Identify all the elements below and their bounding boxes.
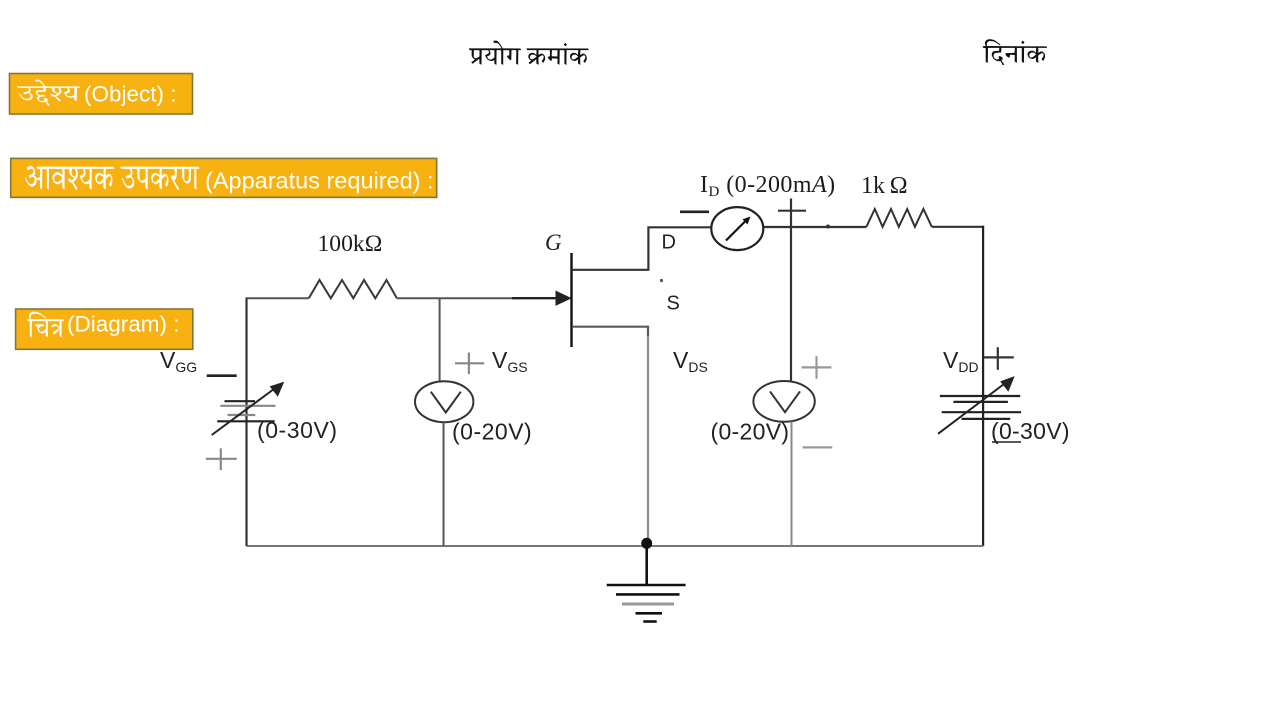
svg-text:VGG: VGG xyxy=(160,347,197,375)
wire: left vertical V_GG branch xyxy=(245,298,247,546)
wire: V_DS branch vertical upper xyxy=(790,199,792,382)
svg-text:(Object) :: (Object) : xyxy=(84,82,177,107)
gate arrow into FET xyxy=(512,291,571,305)
plus sign V_DS xyxy=(802,356,832,379)
artifact tick on wire xyxy=(826,225,830,229)
wire: bottom rail xyxy=(247,545,984,547)
battery V_GG variable arrow xyxy=(212,383,284,436)
plus sign V_GG xyxy=(206,448,237,470)
voltmeter V_DS xyxy=(753,381,814,422)
svg-text:G: G xyxy=(545,230,562,255)
resistor R1 100k zigzag xyxy=(309,280,397,298)
wire: voltmeter V_DS to bottom rail xyxy=(791,422,793,547)
plus sign V_DD xyxy=(984,347,1014,370)
svg-text:(0-20V): (0-20V) xyxy=(452,419,532,445)
svg-text:VGS: VGS xyxy=(492,347,528,375)
plus sign at V_DS top xyxy=(778,210,806,212)
voltmeter V_GS xyxy=(415,381,473,422)
resistor R2 1k zigzag xyxy=(866,209,931,227)
battery V_GG plates xyxy=(217,401,275,421)
minus sign V_DS xyxy=(803,446,833,448)
wire: resistor R2 to right corner xyxy=(932,226,984,228)
svg-text:ID (0-200mA): ID (0-200mA) xyxy=(700,172,836,200)
svg-text:100kΩ: 100kΩ xyxy=(318,231,383,257)
wire: top-left corner to resistor R1 xyxy=(247,298,309,310)
title: prayog kramank (Devanagari) xyxy=(469,41,589,65)
wire: resistor R1 to gate arrow xyxy=(397,297,514,299)
svg-text:(0-20V): (0-20V) xyxy=(711,419,790,445)
label box: chitra (Diagram) xyxy=(16,309,193,349)
wire: junction down to voltmeter V_GS xyxy=(439,298,441,382)
battery V_DD plates xyxy=(940,396,1021,419)
label box: avashyak upkaran (Apparatus required) xyxy=(11,158,437,197)
wire: right vertical V_DD branch xyxy=(982,226,984,546)
svg-text:(Diagram) :: (Diagram) : xyxy=(67,312,180,337)
svg-text:(0-30V): (0-30V) xyxy=(257,417,338,443)
ammeter minus sign xyxy=(680,211,709,214)
svg-text:S: S xyxy=(667,293,680,315)
underline artifact below (0-30V) xyxy=(992,441,1021,443)
title: dinank (Devanagari) xyxy=(983,39,1048,65)
svg-text:(0-30V): (0-30V) xyxy=(991,418,1070,444)
FET Q1 channel bar xyxy=(570,253,572,347)
svg-text:(Apparatus required) :: (Apparatus required) : xyxy=(205,167,434,193)
plus sign V_GS xyxy=(455,353,484,375)
FET drain lead xyxy=(572,227,712,269)
svg-text:D: D xyxy=(662,232,676,254)
wire: voltmeter V_GS to bottom rail xyxy=(443,422,445,546)
artifact dot near S xyxy=(660,279,663,282)
svg-text:VDD: VDD xyxy=(943,347,979,375)
FET source lead xyxy=(572,327,648,336)
wire: ammeter to resistor R2 xyxy=(763,226,866,228)
svg-text:1k Ω: 1k Ω xyxy=(861,173,908,199)
svg-text:VDS: VDS xyxy=(673,347,708,375)
ammeter A1 xyxy=(711,207,763,250)
node: junction dot at ground xyxy=(641,538,652,549)
label box: uddeshya (Object) xyxy=(10,74,193,115)
battery V_GG minus sign xyxy=(207,374,237,377)
ground symbol xyxy=(607,546,686,622)
battery V_DD variable arrow xyxy=(938,377,1014,434)
